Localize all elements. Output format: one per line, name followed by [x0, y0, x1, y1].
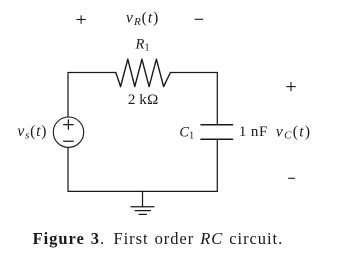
svg-text:R1: R1 — [135, 36, 150, 53]
vs plus sign — [64, 124, 74, 126]
wire left vertical lower — [67, 147, 69, 191]
vs minus sign — [64, 140, 74, 142]
svg-text:C1: C1 — [179, 124, 194, 141]
wire left vertical upper — [67, 73, 69, 118]
wire bottom horizontal — [68, 190, 217, 192]
resistor R1 — [116, 59, 171, 86]
svg-text:2 kΩ: 2 kΩ — [128, 92, 159, 108]
svg-text:Figure 3. First order RC circ: Figure 3. First order RC circuit. — [33, 229, 284, 248]
wire top-right horizontal — [170, 72, 217, 74]
svg-text:1 nF: 1 nF — [239, 124, 268, 140]
wire right vertical upper — [216, 73, 218, 125]
label + (vC polarity top) — [286, 82, 296, 91]
label + (vR polarity left) — [76, 15, 85, 23]
svg-text:vs(t): vs(t) — [17, 123, 47, 141]
ground — [131, 191, 154, 214]
voltage source U vs — [53, 117, 83, 147]
label minus (vC polarity bottom) — [288, 177, 295, 179]
label minus (vR polarity right) — [195, 18, 204, 20]
capacitor C1 — [201, 125, 233, 140]
wire right vertical lower — [216, 139, 218, 191]
svg-text:vR(t): vR(t) — [126, 10, 159, 28]
wire top-left horizontal — [68, 72, 116, 74]
svg-text:vC(t): vC(t) — [276, 123, 311, 141]
